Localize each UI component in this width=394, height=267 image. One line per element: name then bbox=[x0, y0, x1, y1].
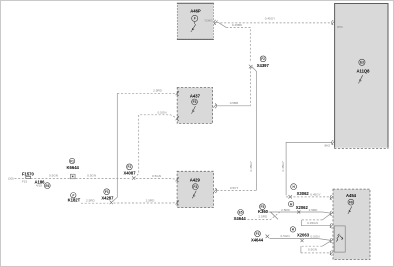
splice X4644 upper bbox=[234, 210, 247, 221]
circled E6 note for A186 bbox=[44, 183, 50, 189]
svg-text:2.5RD: 2.5RD bbox=[258, 215, 268, 219]
fuse output K182T bbox=[68, 193, 81, 203]
svg-text:0.5GN: 0.5GN bbox=[49, 174, 58, 178]
wire X4397 branch down to A429 output bbox=[252, 67, 257, 191]
A437 circled F3 bbox=[192, 99, 198, 105]
svg-text:X4287: X4287 bbox=[101, 195, 114, 200]
svg-text:X4644: X4644 bbox=[251, 238, 264, 243]
wire A46P pin split stub bbox=[216, 21, 219, 23]
A437 left pin 2 bbox=[176, 116, 179, 121]
svg-text:F1570: F1570 bbox=[22, 171, 35, 176]
svg-text:K360: K360 bbox=[258, 209, 269, 214]
svg-text:0.5GN: 0.5GN bbox=[311, 235, 320, 239]
A46P pin Y2HG bbox=[204, 18, 218, 24]
svg-text:F2: F2 bbox=[128, 165, 132, 169]
splice X4087 bbox=[123, 164, 136, 180]
A454 pin 5 bbox=[330, 251, 333, 256]
A429 switch symbol bbox=[192, 191, 196, 199]
svg-text:0.45GY: 0.45GY bbox=[281, 161, 285, 172]
svg-text:0.45BK: 0.45BK bbox=[232, 23, 243, 27]
wire X4087 branch up to A437 bbox=[134, 115, 177, 178]
svg-text:8H2: 8H2 bbox=[324, 144, 330, 148]
svg-text:0.5GN: 0.5GN bbox=[87, 174, 96, 178]
svg-text:A429: A429 bbox=[190, 177, 201, 182]
svg-text:0.5VT: 0.5VT bbox=[230, 186, 238, 190]
wire bridge loop pin4 to pin5 bbox=[301, 241, 331, 253]
wire K182T to splice X4287 bbox=[81, 202, 108, 204]
svg-text:2.5RD: 2.5RD bbox=[153, 89, 163, 93]
splice X4287 bbox=[101, 189, 114, 204]
svg-text:A454: A454 bbox=[346, 193, 357, 198]
svg-text:X4644: X4644 bbox=[234, 216, 247, 221]
svg-text:0.5GN: 0.5GN bbox=[281, 234, 290, 238]
wire X3062 to A454 pin1 bbox=[286, 196, 331, 198]
svg-text:F3: F3 bbox=[105, 190, 109, 194]
svg-text:8H4: 8H4 bbox=[337, 25, 343, 29]
svg-text:F6: F6 bbox=[349, 200, 353, 204]
A454 switch symbol bbox=[348, 206, 352, 214]
splice X3062 bbox=[288, 184, 309, 199]
A454 circled F6 bbox=[348, 199, 354, 205]
splice X4644 lower bbox=[251, 231, 269, 243]
svg-text:A437: A437 bbox=[190, 93, 201, 98]
svg-text:4/15: 4/15 bbox=[36, 184, 42, 188]
svg-text:F15: F15 bbox=[22, 180, 28, 184]
A11Q8 circled E3 bbox=[359, 59, 365, 65]
wire X4287 to A429 pin2 bbox=[114, 202, 178, 204]
svg-text:F1: F1 bbox=[70, 159, 74, 163]
svg-text:0.5GN: 0.5GN bbox=[152, 174, 161, 178]
svg-text:0.45GY: 0.45GY bbox=[249, 161, 253, 172]
svg-text:F3: F3 bbox=[193, 100, 197, 104]
svg-text:X2062: X2062 bbox=[296, 205, 309, 210]
wire X4287 branch up to A437 bbox=[113, 93, 118, 201]
svg-text:(30): (30) bbox=[8, 177, 14, 181]
svg-text:X3062: X3062 bbox=[297, 191, 310, 196]
fuse F1570 bbox=[22, 171, 35, 183]
connector A186 bbox=[34, 179, 45, 187]
A437 switch symbol bbox=[192, 106, 196, 114]
svg-text:0.5BR: 0.5BR bbox=[230, 101, 239, 105]
A429 left pin 1 bbox=[176, 177, 179, 182]
splice X2063 bbox=[290, 227, 310, 242]
A11Q8 top pin bbox=[332, 20, 343, 29]
svg-text:0.45GY: 0.45GY bbox=[310, 192, 321, 196]
svg-text:2.5RD: 2.5RD bbox=[281, 208, 291, 212]
wire A437 output bbox=[217, 105, 251, 107]
svg-text:A11Q8: A11Q8 bbox=[356, 68, 370, 73]
svg-text:Y2HG: Y2HG bbox=[204, 18, 213, 22]
svg-text:F3: F3 bbox=[256, 232, 260, 236]
svg-text:F3: F3 bbox=[193, 185, 197, 189]
svg-text:E3: E3 bbox=[360, 61, 364, 65]
A46P fuse symbol circled F bbox=[192, 15, 198, 21]
svg-text:2.5RD: 2.5RD bbox=[86, 199, 96, 203]
splice X2062 bbox=[288, 201, 308, 213]
svg-text:X4087: X4087 bbox=[123, 171, 136, 176]
A11Q8 switch symbol bbox=[359, 75, 363, 83]
wire fuse to connector A186 bbox=[31, 177, 70, 179]
A429 circled F3 bbox=[192, 184, 198, 190]
svg-text:2.5RD: 2.5RD bbox=[146, 198, 156, 202]
A429 right pin bbox=[213, 188, 216, 193]
A454 pin 1 bbox=[330, 195, 333, 200]
svg-text:E5: E5 bbox=[239, 211, 243, 215]
A454 pin 2 bbox=[330, 211, 333, 216]
svg-text:X4397: X4397 bbox=[257, 63, 270, 68]
fuse output K360 bbox=[258, 204, 269, 219]
A454 pin 4 bbox=[330, 238, 333, 243]
A429 left pin 2 bbox=[176, 200, 179, 205]
control unit A11Q8 big box bbox=[334, 4, 388, 149]
control unit A46P box bbox=[177, 3, 214, 39]
control unit A437 box bbox=[177, 88, 212, 124]
svg-text:A46P: A46P bbox=[190, 9, 201, 14]
svg-text:2.5RD: 2.5RD bbox=[309, 208, 319, 212]
relay K6644 bbox=[67, 158, 80, 179]
A437 right pin bbox=[213, 103, 216, 108]
wire K360 to X2062 crossing merge bbox=[269, 212, 332, 213]
A454 inner blower-regulator sub-box bbox=[334, 226, 345, 252]
wire K6644 to splice X4087 bbox=[76, 177, 132, 179]
wire A11Q8 bottom to X3062 bbox=[286, 142, 332, 195]
wire X4087 to A429 pin1 bbox=[136, 179, 177, 180]
control unit A429 box bbox=[177, 171, 213, 207]
wire A46P branch down bbox=[219, 23, 226, 28]
control unit A454 box bbox=[333, 189, 370, 259]
wire A429 output bbox=[217, 190, 257, 192]
wire X4644 upper branch bbox=[248, 212, 281, 220]
wire terminal30 to fuse F1570 bbox=[15, 177, 26, 179]
wire X4644 to X2063 bbox=[270, 239, 332, 241]
svg-text:0.45GY: 0.45GY bbox=[265, 17, 276, 21]
splice X4397 bbox=[249, 56, 270, 68]
svg-text:F2: F2 bbox=[261, 57, 265, 61]
A46P switch symbol bbox=[191, 22, 196, 32]
wire A46P to A11Q8 top pin bbox=[221, 22, 332, 24]
A437 left pin 1 bbox=[176, 91, 179, 96]
A11Q8 bottom pin bbox=[324, 140, 334, 148]
svg-text:0.45GN: 0.45GN bbox=[307, 221, 318, 225]
wire X4397 down to A437 output bbox=[249, 68, 251, 106]
svg-text:0.5GN: 0.5GN bbox=[158, 111, 167, 115]
A454 pin 3 bbox=[330, 223, 333, 228]
svg-text:E6: E6 bbox=[45, 184, 49, 188]
wire bridge loop pin2 to pin3 bbox=[301, 214, 330, 226]
svg-text:K6644: K6644 bbox=[67, 165, 80, 170]
svg-text:K182T: K182T bbox=[68, 198, 81, 203]
svg-text:0.5GN: 0.5GN bbox=[308, 248, 317, 252]
svg-text:X2063: X2063 bbox=[297, 232, 310, 237]
